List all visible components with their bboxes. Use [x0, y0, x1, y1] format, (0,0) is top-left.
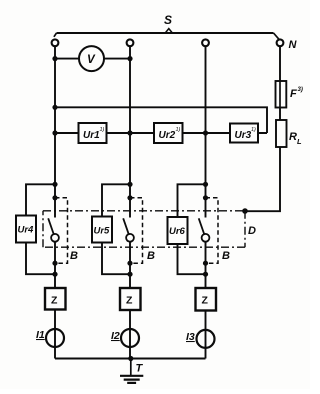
- wire top switch line S: [57, 32, 274, 34]
- svg-text:F: F: [290, 88, 297, 100]
- apparatus boundary B leg1 (dashed bracket): [55, 198, 68, 263]
- svg-text:B: B: [147, 250, 155, 262]
- node ground junction: [128, 356, 133, 361]
- mechanical coupling dash-dot frame: [43, 211, 245, 247]
- terminal phase 3: [202, 39, 209, 46]
- wire Z1 to source I1: [54, 310, 56, 359]
- svg-text:S: S: [164, 13, 172, 27]
- svg-text:Z: Z: [51, 295, 58, 307]
- switch contact leg1: [48, 218, 54, 235]
- wire Ur row: [55, 132, 267, 134]
- relay Ur5: [92, 217, 112, 243]
- wire branch leg2 to Ur5: [102, 184, 130, 274]
- svg-text:Ur5: Ur5: [94, 226, 111, 237]
- wire rail 1 upper: [54, 46, 56, 217]
- current source I3: [197, 330, 215, 348]
- node rail3 branch bottom: [203, 272, 208, 277]
- svg-text:V: V: [87, 54, 96, 66]
- svg-text:I3: I3: [186, 331, 195, 343]
- wire Z3 to source I3: [205, 311, 207, 359]
- svg-text:T: T: [136, 363, 144, 375]
- svg-text:B: B: [70, 250, 78, 262]
- svg-text:Ur2: Ur2: [159, 130, 176, 141]
- node rail1 branch bottom: [52, 272, 57, 277]
- svg-text:D: D: [248, 225, 256, 237]
- svg-text:Ur3: Ur3: [235, 130, 252, 141]
- svg-text:1): 1): [251, 127, 256, 133]
- impedance Z1: [45, 288, 66, 310]
- voltmeter V: [79, 46, 104, 71]
- relay Ur6: [168, 217, 188, 244]
- svg-text:Ur1: Ur1: [83, 130, 100, 141]
- svg-text:I2: I2: [111, 330, 120, 342]
- node bus-rail1: [52, 105, 57, 110]
- relay Ur3: [230, 124, 258, 143]
- terminal phase 2: [127, 39, 134, 46]
- impedance Z2: [120, 288, 141, 310]
- node rail2-voltmeter: [127, 56, 132, 61]
- relay Ur1: [79, 123, 107, 143]
- svg-text:1): 1): [176, 127, 181, 133]
- terminal N: [277, 39, 284, 46]
- node coupling to load wire: [242, 208, 248, 214]
- svg-text:L: L: [297, 137, 302, 146]
- node rail3 branch top: [203, 182, 208, 187]
- apparatus boundary B leg3: [206, 198, 219, 263]
- fuse F: [276, 81, 287, 108]
- ground T: [130, 359, 132, 376]
- node rail2 branch bottom: [127, 272, 132, 277]
- node rail2 branch top: [127, 182, 132, 187]
- impedance Z3: [196, 288, 217, 311]
- svg-text:Z: Z: [202, 295, 209, 307]
- terminal phase 1: [52, 39, 59, 46]
- node rail2-Ur row: [127, 130, 132, 135]
- voltmeter wire: [55, 58, 130, 60]
- apparatus boundary B leg2: [130, 198, 143, 263]
- node rail1-voltmeter: [52, 56, 57, 61]
- svg-text:1): 1): [100, 127, 105, 133]
- wire bus phase1 return: [55, 107, 267, 133]
- switch contact leg2: [123, 218, 129, 235]
- wire rail 3 upper: [205, 46, 207, 217]
- current source I1: [46, 329, 64, 347]
- wire Z2 to source I2: [129, 310, 131, 359]
- svg-text:Ur6: Ur6: [169, 226, 186, 237]
- svg-text:3): 3): [298, 87, 303, 93]
- current source I2: [121, 329, 139, 347]
- wire branch leg3 to Ur6: [178, 184, 206, 274]
- wire rail N / load branch: [245, 46, 280, 211]
- svg-text:Z: Z: [126, 295, 133, 307]
- wire rail 2 upper: [129, 46, 131, 217]
- relay Ur2: [154, 123, 183, 143]
- node rail1-Ur row: [52, 130, 57, 135]
- wire bottom bus: [55, 358, 206, 360]
- svg-text:N: N: [289, 39, 298, 51]
- node rail1 branch top: [52, 182, 57, 187]
- resistor RL: [276, 120, 287, 147]
- switch contact leg3: [199, 218, 205, 235]
- node rail3-Ur row: [203, 130, 208, 135]
- svg-text:R: R: [289, 131, 297, 143]
- svg-text:Ur4: Ur4: [18, 225, 35, 236]
- svg-text:I1: I1: [36, 329, 45, 341]
- wire branch leg1 to Ur4: [26, 184, 55, 274]
- relay Ur4: [16, 216, 36, 243]
- svg-text:B: B: [222, 250, 230, 262]
